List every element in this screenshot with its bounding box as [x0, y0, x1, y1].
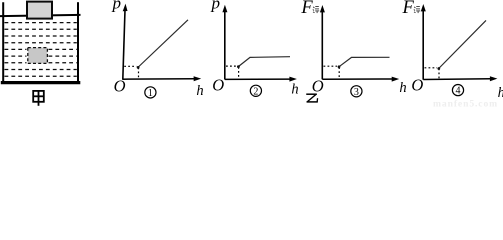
- graph1 y-axis: [123, 10, 125, 80]
- svg-text:h: h: [291, 81, 298, 97]
- graph3 fu subscript (浮) drawn strokes: [313, 7, 319, 14]
- graph4 y-axis arrowhead: [421, 4, 426, 11]
- graph3 y-axis: [321, 12, 323, 79]
- graph4 x-axis arrowhead: [490, 76, 498, 81]
- svg-text:2: 2: [253, 86, 258, 97]
- graph1 y-axis arrowhead: [123, 4, 128, 12]
- svg-text:1: 1: [148, 88, 153, 99]
- graph1 dotted guide horizontal: [124, 65, 136, 67]
- svg-text:O: O: [114, 76, 126, 95]
- graph2 x-axis arrowhead: [289, 77, 297, 82]
- graph1 x-axis: [123, 78, 196, 81]
- container right wall: [77, 2, 79, 83]
- svg-text:p: p: [112, 0, 122, 13]
- graph3 x-axis: [322, 78, 393, 80]
- water dashed lines: [5, 23, 77, 77]
- svg-text:4: 4: [456, 86, 461, 97]
- graph2 tag circled 2: [250, 85, 261, 96]
- graph1 dotted guide vertical: [138, 68, 140, 80]
- graph1 curve (rising line): [138, 20, 188, 68]
- graph4 dotted guide vertical: [438, 69, 440, 80]
- graph3 tag circled 3: [351, 86, 362, 97]
- svg-text:O: O: [411, 76, 423, 95]
- svg-text:p: p: [211, 0, 221, 13]
- svg-text:h: h: [196, 83, 203, 99]
- graph4 y-axis: [422, 11, 424, 80]
- graph1 x-axis arrowhead: [194, 76, 202, 81]
- graph2 dotted guide vertical: [238, 67, 240, 79]
- container left wall: [2, 2, 4, 83]
- svg-text:h: h: [399, 80, 406, 96]
- graph2 y-axis arrowhead: [222, 5, 227, 12]
- svg-text:manfen5.com: manfen5.com: [433, 98, 498, 107]
- floating block: [27, 2, 52, 19]
- water surface line: [0, 15, 81, 16]
- graph4 x-axis: [423, 78, 491, 81]
- graph4 fu subscript (浮) drawn strokes: [414, 7, 420, 14]
- graph2 curve (rise then flat): [238, 57, 290, 67]
- graph1 tag circled 1: [145, 87, 156, 98]
- graph3 dotted guide horizontal: [324, 65, 338, 67]
- graph3 x-axis arrowhead: [392, 77, 400, 82]
- svg-text:F: F: [300, 0, 313, 18]
- graph2 dotted guide horizontal: [226, 65, 237, 67]
- svg-text:h: h: [498, 85, 503, 101]
- graph4 dotted guide horizontal: [425, 67, 438, 69]
- label jia (甲) drawn strokes: [33, 91, 44, 106]
- graph2 y-axis: [224, 11, 226, 80]
- graph3 dotted guide vertical: [338, 67, 340, 79]
- graph3 curve (rise then flat): [339, 57, 390, 67]
- graph4 tag circled 4: [452, 85, 463, 96]
- submerged block (dashed outline): [28, 48, 48, 64]
- svg-text:F: F: [402, 0, 415, 18]
- svg-text:3: 3: [354, 87, 359, 98]
- svg-text:O: O: [312, 76, 324, 95]
- graph4 curve (rising line): [439, 20, 486, 68]
- svg-text:O: O: [212, 76, 224, 95]
- graph2 x-axis: [225, 78, 291, 80]
- graph3 y-axis arrowhead: [320, 5, 325, 12]
- container bottom: [1, 81, 81, 84]
- label yi (乙) drawn strokes: [307, 94, 318, 102]
